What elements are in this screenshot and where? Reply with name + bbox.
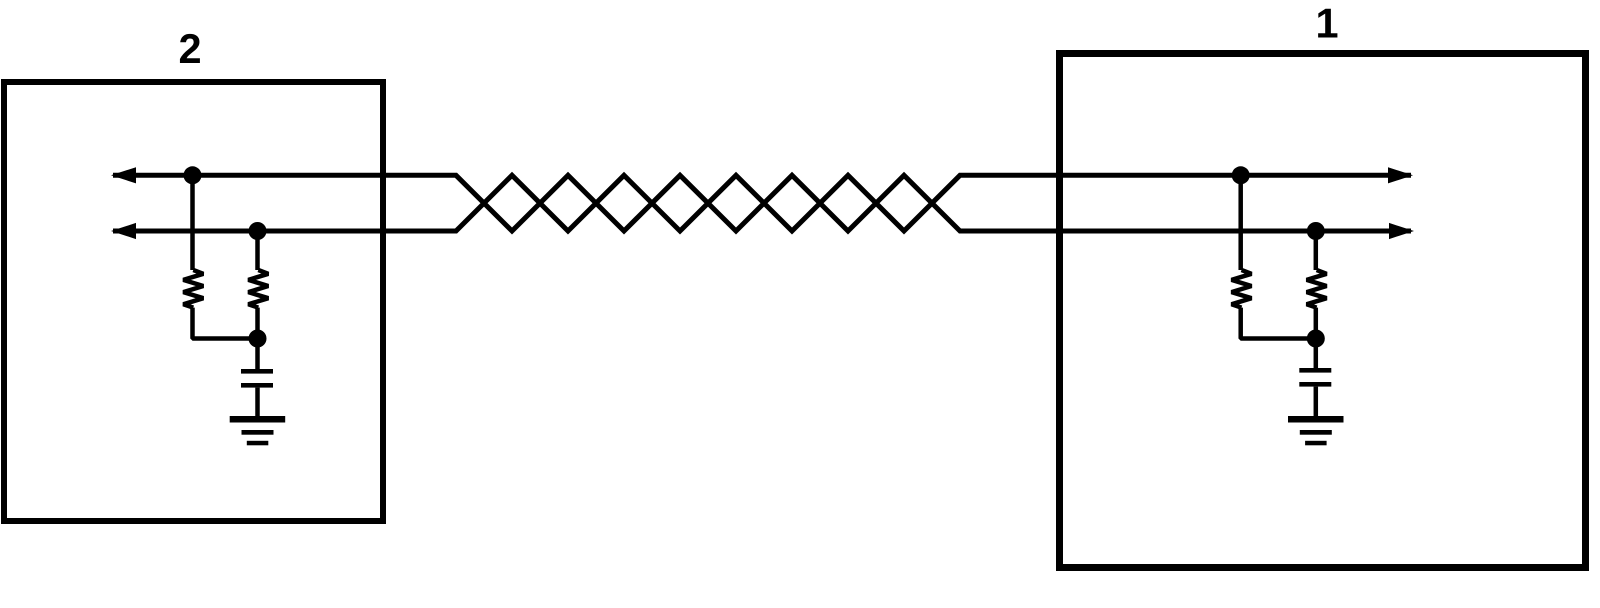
svg-text:1: 1 [1315, 0, 1338, 47]
node dot on bottom wire, box 1 [1307, 222, 1325, 240]
node dot ground junction, box 2 [249, 330, 267, 348]
ground symbol box 2 [230, 416, 286, 445]
node dot on top wire, box 1 [1232, 166, 1250, 184]
arrowhead left top [111, 167, 136, 183]
wire lead capacitor to ground, box 2 [255, 388, 260, 417]
arrowhead right top [1388, 167, 1413, 183]
resistor R-B box 2 [248, 270, 268, 308]
ground symbol box 1 [1288, 416, 1344, 445]
node dot on bottom wire, box 2 [249, 222, 267, 240]
node dot ground junction, box 1 [1307, 330, 1325, 348]
device box 2 [4, 82, 383, 521]
resistor R-A box 1 [1232, 270, 1252, 308]
svg-text:2: 2 [178, 25, 201, 72]
wire L-connector from resistor R-A to ground node, box 2 [193, 308, 258, 339]
device box 1 [1060, 54, 1586, 568]
wire lead ground node to capacitor, box 2 [255, 339, 260, 370]
resistor R-B box 1 [1307, 270, 1327, 308]
wire lead from top-wire node down across bottom wire, box 1 [1238, 175, 1243, 270]
arrowhead left bottom [111, 223, 136, 239]
node dot on top wire, box 2 [184, 166, 202, 184]
arrowhead right bottom [1389, 223, 1414, 239]
wire lead from bottom-wire node to resistor, box 1 [1314, 231, 1319, 270]
wire twisted-pair conductor A (top-left to bottom-right) [113, 175, 1411, 231]
resistor R-A box 2 [183, 270, 203, 308]
wire lead from top-wire node down across bottom wire, box 2 [190, 175, 195, 270]
wire lead from bottom-wire node to resistor, box 2 [255, 231, 260, 270]
wire lead ground node to capacitor, box 1 [1314, 339, 1319, 370]
wire twisted-pair conductor B (bottom-left to top-right) [113, 175, 1411, 231]
capacitor C box 1 [1299, 368, 1331, 387]
wire L-connector from resistor R-A to ground node, box 1 [1241, 308, 1316, 339]
wire lead capacitor to ground, box 1 [1314, 387, 1319, 417]
wire lead resistor R-B to ground node, box 2 [255, 308, 260, 339]
capacitor C box 2 [241, 369, 273, 388]
wire lead resistor R-B to ground node, box 1 [1314, 308, 1319, 339]
